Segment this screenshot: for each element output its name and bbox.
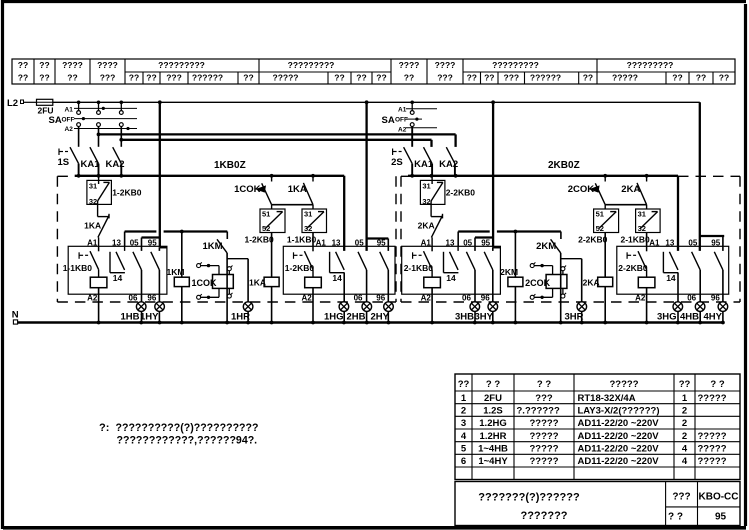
svg-text:AD11-22/20 ~220V: AD11-22/20 ~220V [578, 431, 660, 442]
svg-text:??????: ?????? [192, 73, 223, 83]
svg-text:4HY: 4HY [704, 311, 723, 322]
svg-text:2KM: 2KM [500, 267, 518, 277]
svg-text:1HY: 1HY [140, 311, 159, 322]
svg-text:2KA: 2KA [418, 221, 435, 231]
svg-text:96: 96 [376, 293, 385, 302]
svg-text:??: ?? [719, 73, 729, 83]
svg-text:05: 05 [688, 239, 697, 248]
svg-text:31: 31 [304, 209, 312, 218]
svg-text:??: ?? [18, 73, 28, 83]
svg-text:3HB: 3HB [455, 311, 474, 322]
svg-text:?.??????: ?.?????? [517, 405, 560, 416]
svg-text:??: ?? [679, 379, 691, 390]
svg-text:2KM: 2KM [536, 241, 556, 252]
svg-text:96: 96 [711, 293, 720, 302]
svg-text:1COK: 1COK [192, 278, 218, 288]
svg-text:??: ?? [39, 60, 49, 70]
svg-text:2: 2 [461, 405, 466, 416]
svg-text:A2: A2 [87, 293, 98, 302]
svg-text:???????(?)??????: ???????(?)?????? [478, 492, 580, 504]
svg-text:14: 14 [332, 273, 342, 283]
svg-text:?????: ????? [698, 456, 727, 467]
svg-text:??: ?? [67, 73, 77, 83]
svg-text:??: ?? [484, 73, 494, 83]
svg-text:1-1KB0: 1-1KB0 [63, 263, 93, 273]
svg-text:A2: A2 [398, 126, 407, 133]
svg-text:?????: ????? [698, 431, 727, 442]
svg-text:1COK: 1COK [234, 184, 261, 195]
svg-text:?????: ????? [529, 443, 558, 454]
svg-text:A1: A1 [316, 239, 327, 248]
svg-text:?????????: ????????? [492, 60, 539, 70]
svg-text:?????: ????? [273, 73, 299, 83]
svg-text:??: ?? [376, 73, 386, 83]
svg-text:KA1: KA1 [414, 159, 434, 170]
svg-text:?????????: ????????? [627, 60, 674, 70]
svg-text:1KM: 1KM [203, 241, 223, 252]
svg-text:2KA: 2KA [621, 184, 640, 195]
svg-text:1: 1 [682, 393, 688, 404]
svg-text:1KA: 1KA [84, 221, 101, 231]
svg-text:51: 51 [262, 209, 270, 218]
svg-text:1HB: 1HB [121, 311, 140, 322]
svg-text:???: ??? [166, 73, 182, 83]
svg-text:95: 95 [481, 239, 490, 248]
svg-text:31: 31 [638, 209, 646, 218]
svg-text:51: 51 [596, 209, 604, 218]
svg-text:????: ???? [399, 60, 420, 70]
svg-text:??????????(?)??????????: ??????????(?)?????????? [116, 422, 259, 434]
svg-text:??: ?? [467, 73, 477, 83]
svg-text:?:: ?: [99, 422, 109, 434]
svg-text:??: ?? [146, 73, 156, 83]
svg-text:2S: 2S [391, 157, 403, 168]
svg-text:1~4HY: 1~4HY [478, 456, 508, 467]
svg-text:??: ?? [404, 73, 414, 83]
svg-text:2: 2 [682, 405, 687, 416]
svg-text:2-2KB0: 2-2KB0 [446, 188, 476, 198]
svg-text:95: 95 [715, 512, 727, 523]
svg-text:OFF: OFF [62, 116, 75, 123]
svg-text:13: 13 [665, 239, 674, 248]
svg-text:14: 14 [446, 273, 456, 283]
svg-text:??: ?? [334, 73, 344, 83]
svg-text:?????: ????? [698, 393, 727, 404]
svg-text:??: ?? [129, 73, 139, 83]
svg-text:???: ??? [535, 393, 553, 404]
svg-text:A1: A1 [65, 106, 74, 113]
svg-text:1-2KB0: 1-2KB0 [285, 263, 315, 273]
svg-text:RT18-32X/4A: RT18-32X/4A [578, 393, 636, 404]
svg-text:32: 32 [304, 224, 312, 233]
svg-text:KA2: KA2 [439, 159, 458, 170]
svg-text:1-2KB0: 1-2KB0 [112, 188, 142, 198]
svg-text:1HG: 1HG [324, 311, 344, 322]
svg-text:2-1KB0: 2-1KB0 [404, 263, 434, 273]
svg-text:06: 06 [462, 293, 471, 302]
svg-text:1-1KB0: 1-1KB0 [287, 234, 317, 244]
svg-text:14: 14 [666, 273, 676, 283]
svg-text:?????: ????? [612, 73, 638, 83]
svg-text:L2: L2 [7, 98, 18, 109]
svg-text:?????: ????? [529, 418, 558, 429]
svg-text:05: 05 [463, 239, 472, 248]
svg-text:13: 13 [332, 239, 341, 248]
svg-text:??: ?? [696, 73, 706, 83]
svg-text:2-2KB0: 2-2KB0 [578, 234, 608, 244]
svg-text:95: 95 [711, 239, 720, 248]
svg-text:? ?: ? ? [537, 379, 551, 390]
svg-text:32: 32 [422, 197, 430, 206]
svg-text:1~4HB: 1~4HB [478, 443, 508, 454]
svg-text:A2: A2 [421, 293, 432, 302]
svg-text:13: 13 [112, 239, 121, 248]
svg-text:SA: SA [49, 115, 62, 126]
svg-text:?????: ????? [609, 379, 638, 390]
svg-text:1.2S: 1.2S [483, 405, 503, 416]
svg-text:?????: ????? [529, 431, 558, 442]
svg-text:????: ???? [435, 60, 456, 70]
svg-text:A1: A1 [398, 107, 407, 114]
svg-text:??: ?? [672, 73, 682, 83]
svg-text:3HR: 3HR [565, 311, 584, 322]
svg-text:2: 2 [682, 431, 687, 442]
svg-text:? ?: ? ? [710, 379, 724, 390]
svg-text:????????????,??????94?.: ????????????,??????94?. [117, 435, 258, 447]
svg-text:?????????: ????????? [288, 60, 335, 70]
svg-text:A1: A1 [421, 239, 432, 248]
svg-text:2COK: 2COK [568, 184, 595, 195]
svg-text:AD11-22/20 ~220V: AD11-22/20 ~220V [578, 418, 660, 429]
svg-text:?????: ????? [529, 456, 558, 467]
svg-text:KA2: KA2 [106, 159, 125, 170]
svg-text:2KB0Z: 2KB0Z [548, 160, 580, 171]
svg-text:2HB: 2HB [347, 311, 366, 322]
svg-text:95: 95 [377, 239, 386, 248]
svg-text:A1: A1 [649, 239, 660, 248]
svg-text:? ?: ? ? [668, 512, 683, 523]
svg-text:3HG: 3HG [657, 311, 677, 322]
svg-text:????: ???? [97, 60, 118, 70]
svg-text:??: ?? [243, 73, 253, 83]
svg-text:KA1: KA1 [81, 159, 101, 170]
svg-text:???: ??? [504, 73, 520, 83]
svg-text:????: ???? [62, 60, 83, 70]
svg-text:?????????: ????????? [158, 60, 205, 70]
svg-text:1KA: 1KA [249, 278, 266, 288]
svg-text:2HY: 2HY [371, 311, 390, 322]
svg-text:31: 31 [89, 181, 97, 190]
svg-text:AD11-22/20 ~220V: AD11-22/20 ~220V [578, 443, 660, 454]
svg-text:3: 3 [461, 418, 466, 429]
svg-text:96: 96 [481, 293, 490, 302]
svg-text:OFF: OFF [395, 116, 408, 123]
svg-text:? ?: ? ? [486, 379, 500, 390]
svg-text:5: 5 [461, 443, 467, 454]
svg-text:??: ?? [18, 60, 28, 70]
svg-text:6: 6 [461, 456, 466, 467]
svg-text:A1: A1 [87, 239, 98, 248]
svg-text:2-2KB0: 2-2KB0 [618, 263, 648, 273]
svg-text:4: 4 [682, 443, 688, 454]
svg-text:4: 4 [461, 431, 467, 442]
svg-text:06: 06 [354, 293, 363, 302]
svg-text:???: ??? [672, 492, 690, 503]
svg-text:05: 05 [130, 239, 139, 248]
svg-text:13: 13 [446, 239, 455, 248]
svg-text:N: N [12, 310, 19, 321]
svg-text:AD11-22/20 ~220V: AD11-22/20 ~220V [578, 456, 660, 467]
svg-text:2FU: 2FU [484, 393, 502, 404]
svg-text:05: 05 [355, 239, 364, 248]
svg-text:1.2HG: 1.2HG [479, 418, 506, 429]
svg-text:1KA: 1KA [288, 184, 307, 195]
svg-text:06: 06 [129, 293, 138, 302]
svg-text:??: ?? [356, 73, 366, 83]
svg-text:SA: SA [382, 115, 395, 126]
svg-text:1KM: 1KM [167, 267, 185, 277]
svg-text:96: 96 [147, 293, 156, 302]
svg-text:95: 95 [148, 239, 157, 248]
svg-text:14: 14 [113, 273, 123, 283]
svg-text:3HY: 3HY [475, 311, 494, 322]
svg-text:KBO-CC: KBO-CC [699, 492, 739, 503]
svg-text:2FU: 2FU [38, 106, 54, 116]
svg-text:A2: A2 [65, 126, 74, 133]
svg-text:4HB: 4HB [680, 311, 699, 322]
svg-text:4: 4 [682, 456, 688, 467]
svg-text:1.2HR: 1.2HR [480, 431, 507, 442]
svg-text:A2: A2 [302, 293, 313, 302]
svg-text:?????: ????? [698, 443, 727, 454]
svg-text:???: ??? [100, 73, 116, 83]
svg-text:1HR: 1HR [231, 311, 250, 322]
svg-text:1S: 1S [58, 157, 70, 168]
svg-text:1KB0Z: 1KB0Z [214, 160, 246, 171]
svg-text:A2: A2 [635, 293, 646, 302]
svg-text:32: 32 [638, 224, 646, 233]
svg-text:??????: ?????? [530, 73, 561, 83]
svg-text:2: 2 [682, 418, 687, 429]
svg-text:1-2KB0: 1-2KB0 [245, 234, 275, 244]
svg-text:??: ?? [458, 379, 470, 390]
svg-text:31: 31 [422, 181, 430, 190]
svg-text:06: 06 [687, 293, 696, 302]
svg-text:LAY3-X/2(??????): LAY3-X/2(??????) [578, 405, 660, 416]
svg-text:2-1KB0: 2-1KB0 [621, 234, 651, 244]
svg-text:???????: ??????? [520, 510, 567, 522]
svg-text:2COK: 2COK [525, 278, 551, 288]
svg-text:??: ?? [39, 73, 49, 83]
svg-text:1: 1 [461, 393, 467, 404]
svg-text:32: 32 [89, 197, 97, 206]
svg-text:???: ??? [437, 73, 453, 83]
svg-text:??: ?? [583, 73, 593, 83]
svg-text:2KA: 2KA [583, 278, 600, 288]
